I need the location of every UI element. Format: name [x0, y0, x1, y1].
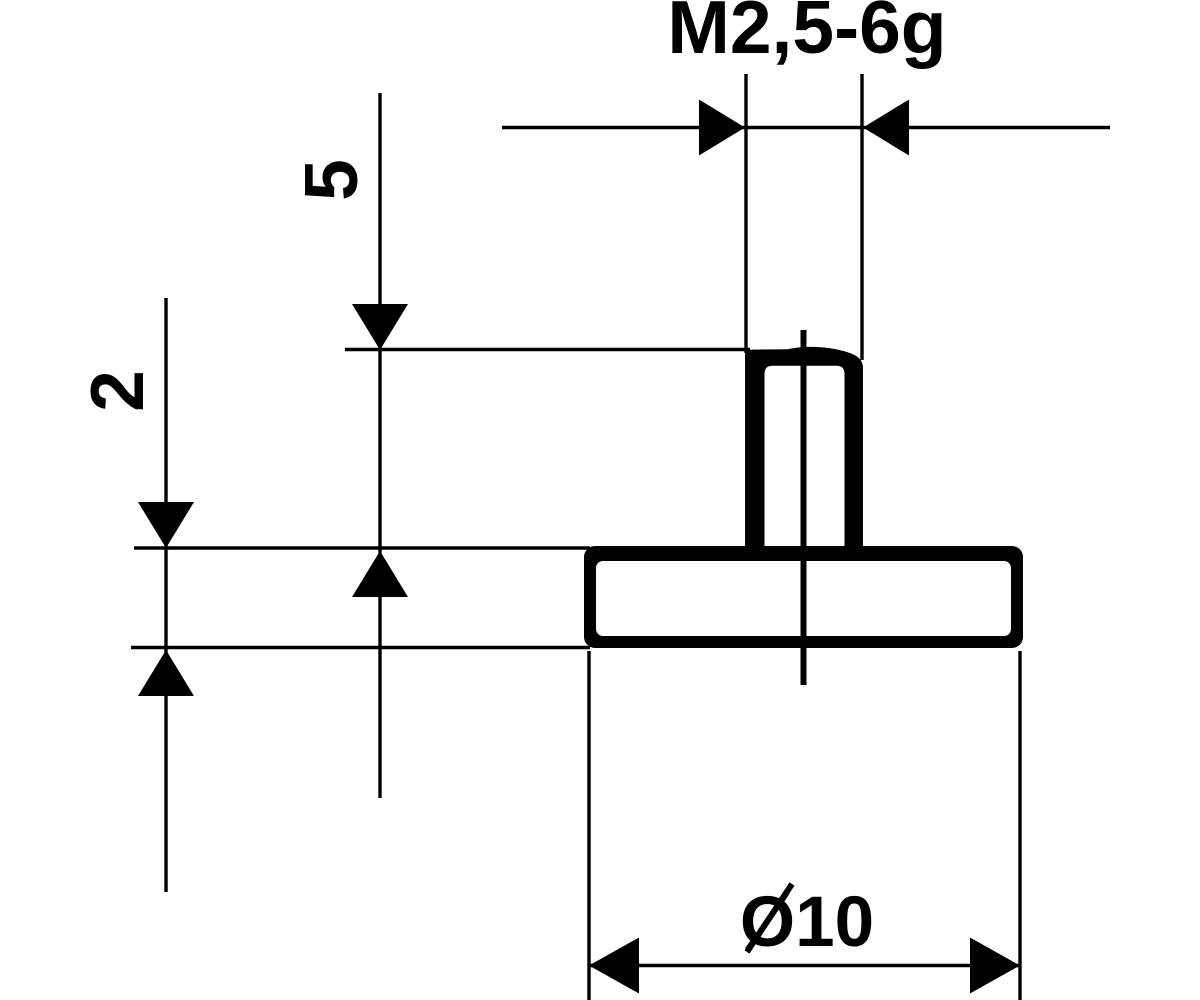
arrowhead down at disc top (x=166)	[138, 502, 194, 548]
extension line disc top y=548	[134, 546, 590, 549]
svg-text:M2,5-6g: M2,5-6g	[667, 0, 946, 69]
stud inner white	[765, 366, 845, 560]
arrowhead up at disc top (x=380)	[352, 551, 408, 597]
extension line thread right x=862	[860, 74, 863, 360]
diameter symbol slash overshoot	[747, 884, 792, 952]
svg-text:2: 2	[75, 370, 159, 412]
arrowhead right-pointing at disc right	[970, 938, 1020, 994]
stud (threaded shank) black body	[745, 347, 863, 560]
extension line disc left x=589	[587, 651, 590, 1000]
arrowhead right-pointing at thread left	[699, 100, 745, 156]
dimension line for 5 x=380	[378, 93, 381, 798]
diameter dimension line y=965.5	[589, 964, 1020, 967]
arrowhead left-pointing at disc left	[589, 938, 639, 994]
extension line thread left x=746	[744, 74, 747, 353]
disc outer black	[584, 546, 1023, 648]
extension line stud top y=349.5	[345, 348, 750, 351]
center line	[801, 330, 807, 685]
arrowhead left-pointing at thread right	[863, 100, 909, 156]
svg-text:5: 5	[289, 159, 373, 201]
thread dimension line	[502, 126, 1110, 129]
arrowhead down at stud top	[352, 304, 408, 350]
dimension line for 2 x=166	[164, 298, 167, 892]
disc inner white	[596, 561, 1011, 636]
arrowhead up at disc bottom (x=166)	[138, 650, 194, 696]
svg-text:Ø10: Ø10	[740, 883, 874, 962]
extension line disc right x=1020	[1018, 651, 1021, 1000]
extension line disc bottom y=647.5	[131, 646, 590, 649]
